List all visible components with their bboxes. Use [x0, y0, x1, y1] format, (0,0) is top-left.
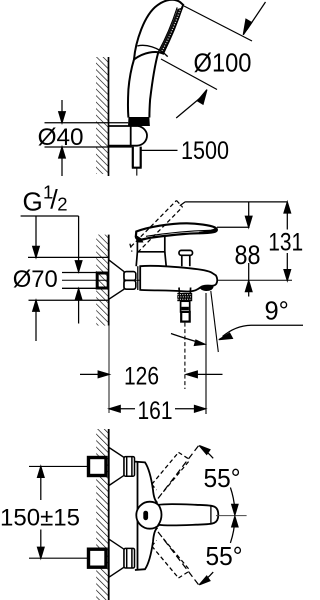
raised lever dashed — [130, 201, 183, 253]
cartridge cap — [136, 236, 166, 266]
arc 55 down — [199, 516, 238, 584]
lever middle view — [136, 223, 217, 239]
shower outlet — [177, 288, 192, 322]
axis line front — [216, 515, 247, 517]
svg-text:9°: 9° — [265, 298, 289, 326]
svg-text:161: 161 — [138, 397, 173, 425]
shower hose — [132, 147, 142, 176]
wall hatch top view — [96, 57, 109, 176]
body front view — [135, 461, 158, 570]
arc 55 up — [199, 446, 238, 515]
union nut middle — [124, 272, 136, 290]
svg-text:126: 126 — [124, 362, 159, 390]
svg-text:55°: 55° — [204, 463, 241, 493]
dimension Ø100 — [161, 2, 266, 118]
svg-text:2: 2 — [57, 194, 67, 215]
hand shower head — [134, 0, 183, 59]
dimension 126 — [80, 371, 223, 378]
vertical reference line — [205, 293, 207, 414]
dimension Ø70 — [28, 216, 109, 341]
label 1500 — [142, 149, 178, 151]
wall bracket — [109, 126, 148, 146]
indicator dot — [143, 511, 148, 521]
supply pipe G1/2 — [62, 273, 97, 289]
dimension Ø40 — [45, 100, 132, 176]
top union nut front — [124, 457, 135, 477]
aerator — [199, 285, 213, 291]
svg-text:Ø100: Ø100 — [194, 48, 252, 78]
lever inner crease — [146, 230, 210, 236]
diverter knob — [179, 250, 193, 266]
svg-text:Ø70: Ø70 — [13, 266, 58, 293]
dimension 88 — [245, 203, 252, 297]
hand shower handle — [128, 53, 158, 118]
svg-text:150±15: 150±15 — [0, 505, 80, 532]
faucet body middle — [138, 266, 217, 292]
escutcheon middle — [109, 260, 124, 300]
bottom union block — [29, 549, 106, 567]
dashed lever up — [152, 445, 200, 499]
extension line 131 top — [180, 202, 288, 206]
svg-text:55°: 55° — [206, 541, 243, 571]
dimension 131 — [284, 202, 291, 281]
label G 1/2 — [23, 182, 68, 217]
wall hatch middle view — [96, 235, 109, 413]
svg-text:1500: 1500 — [181, 137, 229, 165]
svg-text:G: G — [23, 187, 43, 217]
dashed lever down — [152, 532, 200, 586]
lever hub front — [136, 502, 163, 529]
lever front view — [159, 504, 219, 525]
lever back corner — [135, 235, 143, 243]
bottom union nut front — [124, 548, 135, 568]
wall hatch bottom view — [96, 429, 109, 600]
svg-text:Ø40: Ø40 — [38, 124, 84, 151]
top union block — [29, 458, 106, 476]
wall fitting block — [97, 273, 108, 288]
body axis line — [62, 279, 292, 281]
9 deg leader and arrows — [171, 325, 303, 345]
top escutcheon front — [109, 448, 124, 486]
hose axis dashed — [184, 323, 186, 389]
svg-text:88: 88 — [235, 240, 261, 270]
bottom escutcheon front — [109, 539, 124, 577]
extension line 88 top — [217, 226, 250, 228]
dimension 161 — [109, 406, 205, 413]
G1/2 leader — [21, 216, 82, 324]
shower grip clamp — [128, 117, 150, 126]
tilted 9 deg line — [211, 291, 219, 352]
dimension 150±15 — [38, 466, 45, 558]
svg-text:131: 131 — [268, 228, 303, 256]
lever tip shade — [199, 228, 217, 234]
